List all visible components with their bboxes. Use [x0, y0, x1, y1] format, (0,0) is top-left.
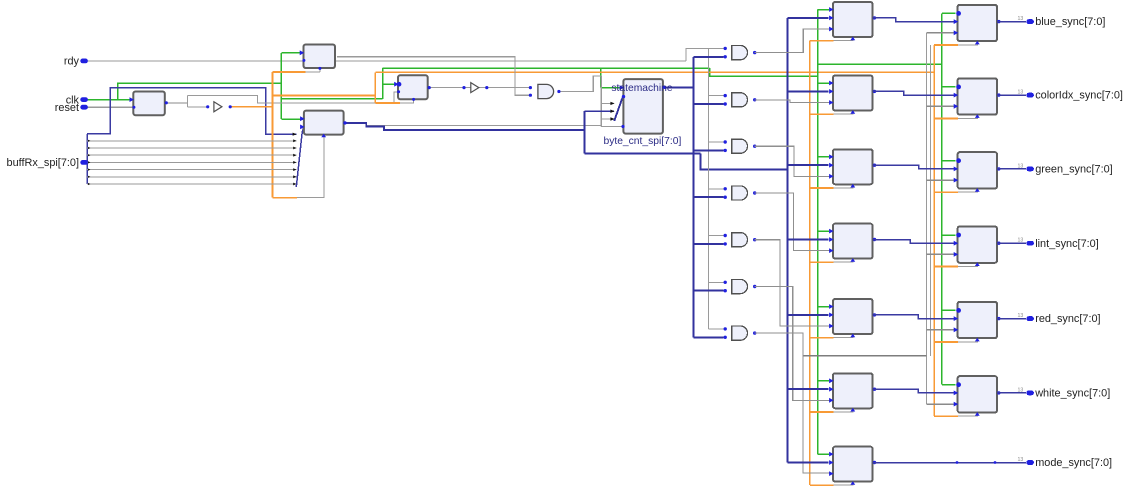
- wire U2.Q to AND U6 input B: [337, 57, 531, 95]
- wire enable to R1b: [926, 32, 955, 34]
- svg-text:13: 13: [1018, 387, 1024, 393]
- wire AND U16 input A stub: [709, 328, 724, 330]
- register R1a (first sync stage): [833, 2, 873, 37]
- wire vertical x601: [600, 76, 602, 127]
- wire enable to R4b: [926, 253, 955, 255]
- bus D input R3a: [787, 164, 828, 166]
- wire stub U4 clock: [400, 99, 414, 103]
- wire AND U15 input A stub: [709, 281, 724, 283]
- wire clk_spi vertical x934: [933, 45, 935, 416]
- wire R5a.Q to R5b.D: [873, 315, 957, 319]
- node R4b.Q: [997, 242, 1000, 245]
- node U7 clock pin: [621, 125, 624, 128]
- and-gate U6: [538, 84, 554, 98]
- bus AND U10 input B stub: [693, 56, 723, 58]
- node R5b.Q: [997, 317, 1000, 320]
- wire into statemachine merge a: [601, 102, 614, 104]
- node U7 bus input pin: [622, 95, 625, 98]
- wire clk tap to R5b: [942, 309, 956, 311]
- node U2 clock pin: [318, 67, 321, 70]
- node R3a.Q: [873, 164, 876, 167]
- node U3.Q: [343, 121, 346, 124]
- wire AND U15 out to R6 enable: [755, 287, 833, 401]
- and-gate U12: [732, 139, 748, 153]
- input port pin rdy: [80, 59, 88, 64]
- wire clk tap to R7a: [818, 453, 830, 455]
- output port pin mode_sync[7:0]: [1026, 460, 1034, 465]
- wire clk vertical riser x281: [280, 53, 282, 119]
- node R6b.Q: [997, 391, 1000, 394]
- wire clk_spi tap R5a: [810, 337, 834, 339]
- wire clk_spi to U2 clock: [273, 71, 306, 73]
- wire buffRx_spi bit 1: [87, 176, 296, 178]
- wire clk_spi tap R6b: [934, 415, 958, 417]
- wire clk vertical x941: [941, 13, 943, 384]
- register R4a (first sync stage): [833, 224, 873, 259]
- wire clk_spi tap R7a: [810, 484, 834, 486]
- node R3b.Q: [997, 167, 1000, 170]
- wire gray long y125: [366, 125, 601, 127]
- and-gate U16: [732, 326, 748, 340]
- wire clk tap to R1a: [818, 9, 830, 11]
- svg-text:13: 13: [1018, 457, 1024, 463]
- wire stub R2b clock: [958, 115, 977, 118]
- output port pin blue_sync[7:0]: [1026, 19, 1034, 24]
- flip-flop U2: [304, 45, 336, 69]
- and-gate U13: [732, 186, 748, 200]
- wire U1.Q out: [166, 102, 187, 104]
- wire clk_spi vertical x809: [809, 41, 811, 486]
- output port pin red_sync[7:0]: [1026, 316, 1034, 321]
- wire clk tap to R5a: [818, 306, 830, 308]
- flip-flop U4: [398, 75, 428, 99]
- wire clk_spi tap R5b: [934, 341, 958, 343]
- wire clk drop to statemachine: [600, 68, 602, 87]
- input port pin reset: [80, 105, 88, 110]
- wire AND U12 input A stub: [709, 141, 724, 143]
- wire clk tap to R3a: [818, 156, 830, 158]
- wire clk vertical x817: [817, 10, 819, 455]
- bus merge slant into statemachine: [614, 97, 623, 121]
- wire AND U12 out to R3 enable: [755, 146, 833, 176]
- wire clk_spi tap R2a: [810, 113, 834, 115]
- wire stub R4a clock: [834, 259, 853, 262]
- register R6a (first sync stage): [833, 373, 873, 408]
- bus AND U13 input B stub: [693, 196, 723, 198]
- wire R6a.Q to R6b.D: [873, 389, 957, 393]
- svg-text:blue_sync[7:0]: blue_sync[7:0]: [1035, 16, 1105, 28]
- bus D input R6a: [787, 388, 828, 390]
- and-gate U11: [732, 93, 748, 107]
- bus D input R2a: [787, 90, 828, 92]
- wire clk_spi tap R2b: [934, 117, 958, 119]
- wire clk into DFF U1: [87, 99, 133, 101]
- svg-text:13: 13: [1018, 163, 1024, 169]
- node before buffer B2: [462, 86, 465, 89]
- wire rdy to AND U10 input A: [686, 48, 724, 61]
- svg-text:lint_sync[7:0]: lint_sync[7:0]: [1035, 238, 1099, 250]
- wire buffRx_spi bit 5: [87, 147, 296, 149]
- input port pin buffRx_spi: [80, 160, 88, 165]
- node R6a.Q: [873, 388, 876, 391]
- node U7.Q: [663, 86, 666, 89]
- wire clk branch to x941: [818, 63, 942, 65]
- wire clk_spi from buffer B1: [230, 106, 272, 108]
- bus AND U15 input B stub: [693, 290, 723, 292]
- wire clk to DFF U4: [383, 83, 399, 85]
- wire clk to DFF U2: [281, 52, 303, 54]
- wire clk_spi bottom to U3: [273, 197, 298, 199]
- wire clk into statemachine: [601, 87, 624, 89]
- wire AND U10 out to R1 enable: [755, 29, 833, 53]
- wire reset into DFF U1: [87, 106, 133, 108]
- wire AND U14 input A stub: [709, 235, 724, 237]
- node R1b.Q: [997, 20, 1000, 23]
- wire R5b.Q to output port: [997, 318, 1026, 320]
- bus U3.Q shift register out: [345, 123, 584, 130]
- and-gate U15: [732, 279, 748, 293]
- wire clk tap to R2a: [818, 82, 830, 84]
- wire clk_spi vertical x272: [272, 72, 274, 198]
- wire R3a.Q to R3b.D: [873, 165, 957, 169]
- node R7a.Q: [873, 461, 876, 464]
- wire clk_spi horizontal y95: [273, 94, 376, 96]
- node R2a.Q: [873, 90, 876, 93]
- wire clk_spi tap R6a: [810, 411, 834, 413]
- wire statemachine clock stub: [601, 126, 623, 128]
- wire clk_spi tap R4a: [810, 261, 834, 263]
- output port pin white_sync[7:0]: [1026, 391, 1034, 396]
- wire U1.Q split vertical: [187, 95, 189, 107]
- wire clk vertical riser x382: [382, 68, 384, 99]
- wire stub R2a clock: [834, 111, 853, 114]
- wire into buffer B1: [188, 106, 208, 108]
- wire enable to R6b: [926, 403, 955, 405]
- wire buffRx_spi bit 4: [87, 154, 296, 156]
- register R1b (second sync stage): [958, 5, 997, 41]
- svg-text:colorIdx_sync[7:0]: colorIdx_sync[7:0]: [1035, 90, 1123, 102]
- wire stub R4b clock: [958, 263, 977, 266]
- wire clk_spi vertical x375: [374, 72, 376, 103]
- wire AND U17 out to R7 enable: [755, 333, 833, 473]
- wire R1a.Q to R1b.D: [873, 18, 957, 22]
- and-gate U10: [732, 46, 748, 60]
- wire AND U14 out to R5 enable: [755, 240, 833, 326]
- wire clk_spi tap R1b: [934, 44, 958, 46]
- svg-text:rdy: rdy: [64, 56, 80, 68]
- svg-text:white_sync[7:0]: white_sync[7:0]: [1034, 388, 1110, 400]
- svg-text:byte_cnt_spi[7:0]: byte_cnt_spi[7:0]: [603, 136, 681, 147]
- bus AND U14 input B stub: [693, 243, 723, 245]
- bus byte_cnt feedback y153: [584, 152, 700, 154]
- register R3b (second sync stage): [958, 152, 997, 188]
- wire R2a.Q to R2b.D: [873, 91, 957, 95]
- wire vertical x926: [925, 33, 927, 404]
- wire buffer B2 out to AND U6: [479, 87, 530, 89]
- output port pin green_sync[7:0]: [1026, 167, 1034, 172]
- wire clk tap to R4b: [942, 234, 956, 236]
- wire stub U2 clock vertical: [319, 68, 321, 72]
- wire enable to R2b: [926, 105, 955, 107]
- bus into statemachine merge c: [584, 110, 614, 112]
- bus vertical x787 register data: [786, 18, 788, 463]
- wire R7a.Q to output port: [873, 462, 1026, 464]
- wire AND U10 input A stub: [709, 47, 724, 49]
- wire AND U11 out to R2 enable: [755, 100, 833, 103]
- wire stub U3 clock: [297, 135, 324, 198]
- node R1a.Q: [873, 16, 876, 19]
- wire R3b.Q to output port: [997, 168, 1026, 170]
- wire R4a.Q to R4b.D: [873, 240, 957, 244]
- bus AND U11 input B stub: [693, 103, 723, 105]
- state machine / byte counter U7: [623, 79, 663, 134]
- svg-text:red_sync[7:0]: red_sync[7:0]: [1035, 313, 1100, 325]
- register R5a (first sync stage): [833, 299, 873, 334]
- bus AND U16 input B stub: [693, 336, 723, 338]
- register R7a (first sync stage): [833, 447, 873, 482]
- wire clk tap to R3b: [942, 160, 956, 162]
- node U1.Q: [165, 101, 168, 104]
- wire R1b.Q to output port: [997, 21, 1026, 23]
- buffer B1: [214, 102, 222, 112]
- bus byte_cnt jog to x787: [700, 153, 787, 169]
- wire clk_spi tap R1a: [810, 40, 834, 42]
- wire stub R1a clock: [834, 38, 853, 41]
- wire clk tap to R2b: [942, 86, 956, 88]
- and-gate U14: [732, 233, 748, 247]
- wire U4.Q to buffer B2: [429, 87, 471, 89]
- wire AND U13 input A stub: [709, 188, 724, 190]
- wire stub R6a clock: [834, 409, 853, 412]
- wire bus merge into U3: [296, 127, 304, 187]
- node R4a.Q: [873, 238, 876, 241]
- wire serial bit route: [87, 88, 296, 135]
- svg-text:13: 13: [1018, 16, 1024, 22]
- node U4.Q: [428, 86, 431, 89]
- wire buffRx_spi bit 0: [87, 183, 296, 185]
- wire stub R3a clock: [834, 185, 853, 188]
- bus AND U12 input B stub: [693, 149, 723, 151]
- register R2b (second sync stage): [958, 78, 997, 114]
- wire clk_spi tap R3b: [934, 191, 958, 193]
- svg-text:green_sync[7:0]: green_sync[7:0]: [1035, 164, 1113, 176]
- wire stub R5b clock: [958, 339, 977, 342]
- bus D input R1a: [787, 17, 828, 19]
- wire stub R5a clock: [834, 335, 853, 338]
- wire rdy net horizontal: [87, 60, 686, 62]
- register R2a (first sync stage): [833, 76, 873, 111]
- svg-text:mode_sync[7:0]: mode_sync[7:0]: [1035, 457, 1112, 469]
- bus D input R4a: [787, 239, 828, 241]
- node U4 clock pin: [412, 98, 415, 101]
- wire buffRx_spi fan vertical: [86, 134, 88, 184]
- wire clk_spi tap R3a: [810, 187, 834, 189]
- node R2b.Q: [997, 93, 1000, 96]
- bus D input R7a: [787, 462, 828, 464]
- wire clk_spi main horizontal: [375, 71, 934, 73]
- bus vertical x584: [583, 111, 585, 153]
- wire AND U13 out to R4 enable: [755, 193, 833, 251]
- svg-text:reset: reset: [55, 102, 79, 114]
- wire AND U6 out: [559, 76, 601, 92]
- wire enable to R3b: [926, 179, 955, 181]
- svg-text:statemachine: statemachine: [611, 83, 673, 94]
- wire vertical x708 AND enables: [708, 48, 710, 329]
- wire AND U11 input A stub: [709, 95, 724, 97]
- wire buffRx_spi bit 3: [87, 161, 296, 163]
- register R3a (first sync stage): [833, 149, 873, 184]
- wire clk jog to register column: [710, 68, 818, 76]
- wire stub R3b clock: [958, 189, 977, 192]
- bus byte_cnt out: [663, 86, 694, 88]
- wire into statemachine merge b: [601, 118, 614, 120]
- register R4b (second sync stage): [958, 226, 997, 262]
- wire stub R7a clock: [834, 482, 853, 485]
- wire AND U17 out branch y355: [803, 355, 927, 357]
- wire clk main horizontal: [383, 67, 710, 69]
- wire R6b.Q to output port: [997, 392, 1026, 394]
- wire clk horizontal y99: [281, 98, 382, 100]
- wire into DFF U4 D input: [394, 92, 398, 103]
- node after buffer B2: [485, 86, 488, 89]
- register R5b (second sync stage): [958, 302, 997, 338]
- flip-flop U3 (shift register): [304, 111, 344, 135]
- bus D input R5a: [787, 314, 828, 316]
- wire clk tap to R4a: [818, 230, 830, 232]
- wire clk tap to R6b: [942, 384, 956, 386]
- flip-flop U1 (reset sync): [133, 92, 165, 116]
- wire clk_spi to U4 clock: [375, 102, 400, 104]
- wire clk tap to R6a: [818, 380, 830, 382]
- wire enable to R5b: [926, 329, 955, 331]
- bus byte_cnt vertical x693: [692, 57, 694, 338]
- output port pin lint_sync[7:0]: [1026, 241, 1034, 246]
- wire vertical x930: [929, 45, 931, 356]
- output port pin colorIdx_sync[7:0]: [1026, 93, 1034, 98]
- register R6b (second sync stage): [958, 376, 997, 412]
- svg-text:buffRx_spi[7:0]: buffRx_spi[7:0]: [7, 157, 79, 169]
- wire stub U2 clock: [306, 71, 320, 73]
- wire buffRx_spi bit 6: [87, 140, 296, 142]
- svg-text:13: 13: [1018, 238, 1024, 244]
- svg-text:13: 13: [1018, 90, 1024, 96]
- wire U1.Q long to U4: [188, 95, 395, 103]
- wire R2b.Q to output port: [997, 94, 1026, 96]
- node R5a.Q: [873, 313, 876, 316]
- wire clk_spi tap R4b: [934, 266, 958, 268]
- wire buffRx_spi bit 2: [87, 169, 296, 171]
- wire stub R1b clock: [958, 42, 977, 45]
- wire clk to DFF U3: [281, 118, 304, 120]
- wire stub R6b clock: [958, 413, 977, 416]
- wire clk branch up: [118, 83, 281, 99]
- svg-text:13: 13: [1018, 313, 1024, 319]
- wire clk tap to R1b: [942, 12, 956, 14]
- buffer B2: [471, 83, 479, 93]
- input port pin clk: [80, 97, 88, 102]
- wire R4b.Q to output port: [997, 242, 1026, 244]
